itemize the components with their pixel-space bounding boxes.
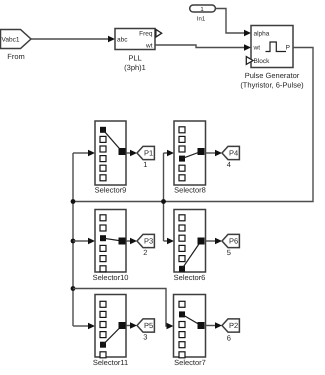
goto tag P6 [222, 234, 239, 257]
svg-text:Vabc1: Vabc1 [2, 36, 20, 43]
svg-text:1: 1 [143, 160, 147, 169]
svg-text:Freq: Freq [139, 30, 153, 37]
wire branch to Selector6 [164, 238, 175, 244]
block Selector10 [93, 210, 129, 283]
wire branch to Selector8 [164, 150, 175, 156]
wire P output feedback to selector buses [73, 48, 313, 202]
svg-text:From: From [7, 52, 25, 61]
junction on bus 1 at lower branch [71, 286, 76, 291]
wire Selector11 to goto P5 [126, 322, 137, 328]
svg-text:P5: P5 [144, 321, 153, 330]
wire branch to Selector11 [73, 323, 95, 329]
wire bus 2 vertical [163, 153, 165, 241]
from tag Vabc1 [1, 30, 32, 62]
goto tag P1 [137, 146, 154, 169]
block PLL (3ph)1 [115, 29, 155, 73]
svg-text:P3: P3 [144, 237, 153, 246]
svg-text:P: P [286, 45, 290, 52]
svg-text:5: 5 [227, 248, 231, 257]
block Selector9 [95, 121, 127, 195]
goto tag P5 [137, 319, 154, 342]
svg-text:(3ph)1: (3ph)1 [124, 63, 146, 72]
svg-text:(Thyristor, 6-Pulse): (Thyristor, 6-Pulse) [240, 81, 304, 90]
svg-text:abc: abc [117, 36, 128, 43]
svg-text:Selector6: Selector6 [174, 273, 206, 282]
svg-text:Selector7: Selector7 [174, 358, 206, 367]
svg-text:PLL: PLL [128, 53, 141, 62]
svg-text:P6: P6 [229, 237, 238, 246]
wire lower branch to Selector7 [73, 289, 174, 330]
svg-text:P2: P2 [229, 321, 238, 330]
svg-text:4: 4 [227, 160, 231, 169]
wire Selector6 to goto P6 [206, 238, 223, 244]
wire Selector7 to goto P2 [206, 322, 223, 328]
svg-text:6: 6 [227, 334, 231, 343]
junction on bus 2 at feedback [161, 199, 166, 204]
inport In1 [190, 5, 216, 22]
block Selector7 [174, 295, 206, 368]
svg-text:Selector10: Selector10 [93, 273, 129, 282]
svg-text:Selector11: Selector11 [93, 358, 128, 367]
block Selector6 [174, 210, 206, 283]
wire Selector8 to goto P4 [206, 150, 223, 156]
svg-text:2: 2 [143, 248, 147, 257]
svg-text:P1: P1 [144, 149, 153, 158]
goto tag P3 [137, 234, 154, 257]
unconnected input arrow Block [246, 57, 253, 65]
wire branch to Selector9 [73, 150, 95, 156]
wire In1 to pulse generator alpha input [215, 9, 251, 37]
wire Selector10 to goto P3 [126, 238, 137, 244]
goto tag P4 [222, 146, 239, 169]
wire Selector9 to goto P1 [126, 150, 137, 156]
wire PLL wt to pulse generator wt input [155, 44, 251, 50]
block Selector11 [93, 295, 128, 368]
wire bus 1 vertical [72, 153, 74, 326]
wire Vabc1 to PLL abc input [31, 36, 115, 42]
unconnected output arrow Freq [156, 29, 162, 37]
svg-text:3: 3 [143, 333, 147, 342]
junction on bus 1 at selector10 branch [71, 239, 76, 244]
svg-text:alpha: alpha [254, 30, 270, 37]
block Pulse Generator (Thyristor, 6-Pulse) [240, 26, 304, 90]
svg-text:Pulse Generator: Pulse Generator [245, 71, 300, 80]
block Selector8 [174, 121, 206, 195]
svg-text:Block: Block [254, 58, 271, 65]
svg-text:wt: wt [253, 44, 261, 51]
goto tag P2 [222, 319, 239, 343]
svg-text:P4: P4 [229, 149, 238, 158]
wire branch to Selector10 [73, 238, 95, 244]
svg-text:Selector8: Selector8 [174, 186, 206, 195]
svg-text:In1: In1 [197, 15, 206, 22]
junction on bus 1 at feedback [71, 199, 76, 204]
svg-text:wt: wt [145, 42, 153, 49]
svg-text:Selector9: Selector9 [95, 186, 127, 195]
